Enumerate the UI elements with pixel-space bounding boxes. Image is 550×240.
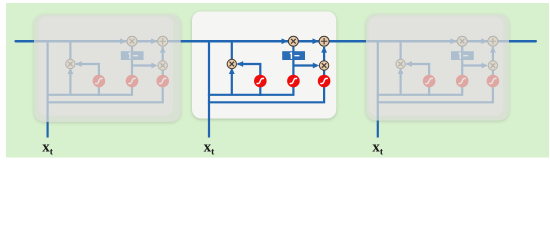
cell body middle	[192, 12, 336, 119]
wire: main horizontal state line h	[16, 40, 536, 42]
background green panel	[0, 0, 550, 160]
cell body right (under overlay)	[369, 17, 503, 116]
fade overlay right cell	[366, 14, 509, 121]
cell body left (under overlay)	[39, 17, 173, 116]
fade overlay left cell	[34, 14, 181, 122]
GRU cell right wiring	[377, 36, 500, 137]
GRU cell middle wiring	[208, 36, 331, 137]
GRU cell left wiring	[47, 36, 170, 137]
